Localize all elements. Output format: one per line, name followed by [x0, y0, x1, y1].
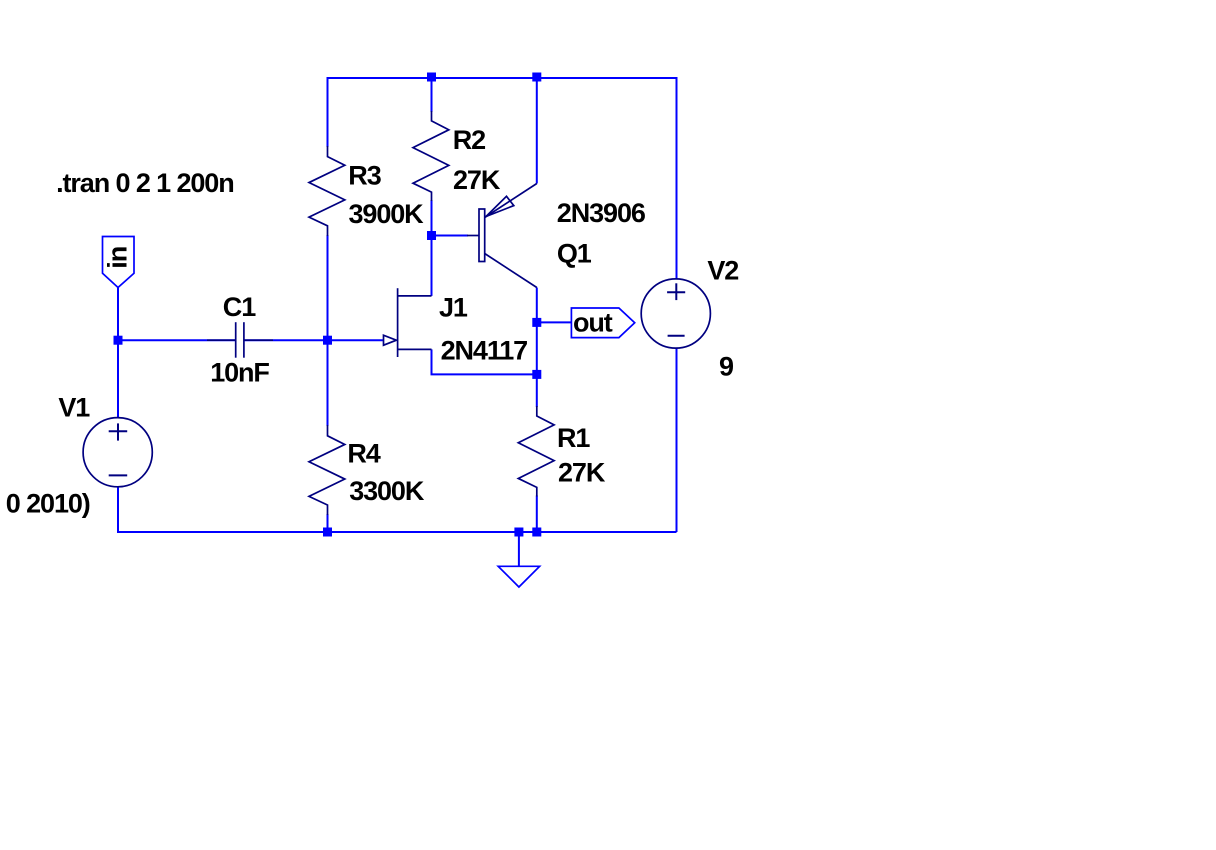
- svg-text:10nF: 10nF: [210, 358, 269, 388]
- svg-text:R3: R3: [348, 161, 381, 191]
- svg-text:C1: C1: [223, 292, 256, 322]
- svg-text:V2: V2: [707, 256, 738, 286]
- svg-text:9: 9: [719, 352, 734, 382]
- svg-text:R1: R1: [557, 423, 590, 453]
- svg-text:V1: V1: [58, 393, 90, 423]
- svg-text:J1: J1: [439, 293, 468, 323]
- svg-text:2N4117: 2N4117: [441, 336, 528, 366]
- svg-text:in: in: [103, 247, 133, 269]
- svg-text:R2: R2: [453, 125, 485, 155]
- svg-text:27K: 27K: [558, 458, 606, 488]
- svg-text:0 2010): 0 2010): [6, 489, 90, 519]
- svg-text:R4: R4: [347, 439, 380, 469]
- svg-text:out: out: [573, 307, 613, 337]
- svg-text:27K: 27K: [453, 165, 501, 195]
- svg-text:3900K: 3900K: [349, 199, 425, 229]
- svg-text:Q1: Q1: [557, 238, 592, 268]
- svg-text:3300K: 3300K: [349, 476, 425, 506]
- svg-text:.tran 0 2 1 200n: .tran 0 2 1 200n: [56, 168, 234, 198]
- svg-text:2N3906: 2N3906: [557, 198, 646, 228]
